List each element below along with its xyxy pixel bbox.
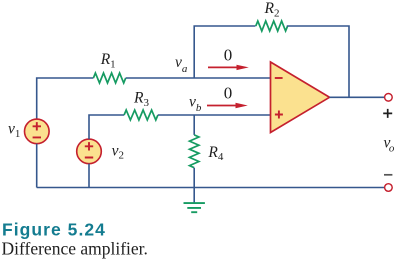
wire: R3 to op-amp plus input: [158, 114, 271, 116]
wire: R4 down through rail to ground: [193, 168, 195, 203]
svg-text:R3: R3: [133, 90, 149, 109]
svg-text:v1: v1: [8, 121, 20, 140]
svg-text:Difference amplifier.: Difference amplifier.: [2, 239, 148, 259]
wire: v1 top vertical and R1 row to op-amp minus input: [37, 78, 94, 119]
op-amp U1: [271, 62, 330, 133]
resistor R3: [124, 110, 158, 120]
svg-text:R4: R4: [207, 144, 223, 163]
voltage source v1: [25, 119, 50, 144]
output terminal top: [385, 94, 393, 102]
wire: R2 to output junction: [287, 26, 349, 97]
voltage source v2: [77, 139, 102, 164]
svg-text:v2: v2: [112, 142, 124, 161]
svg-text:vb: vb: [189, 93, 202, 114]
wire: R1 to op-amp minus input: [126, 77, 271, 79]
wire: bottom rail: [37, 187, 385, 189]
resistor R4: [190, 135, 199, 168]
wire: v2 top vertical and R3 row start: [89, 115, 124, 139]
svg-text:R2: R2: [264, 0, 280, 19]
output plus sign: [383, 109, 392, 118]
svg-text:R1: R1: [100, 51, 116, 70]
wire: v2 bottom to ground rail: [88, 164, 90, 188]
wire: vb down to R4: [193, 115, 195, 135]
wire: op-amp output: [330, 96, 385, 98]
wire: v1 bottom to ground rail: [36, 144, 38, 188]
output minus sign: [384, 174, 392, 176]
svg-text:vo: vo: [384, 135, 395, 155]
svg-text:0: 0: [224, 45, 233, 64]
svg-text:0: 0: [224, 83, 233, 102]
output terminal bottom: [385, 184, 393, 192]
resistor R2: [256, 21, 288, 31]
ground: [184, 203, 205, 212]
resistor R1: [93, 73, 125, 83]
svg-text:Figure 5.24: Figure 5.24: [2, 220, 106, 240]
wire: va vertical up to top feedback rail: [194, 26, 255, 78]
svg-text:va: va: [175, 54, 188, 75]
